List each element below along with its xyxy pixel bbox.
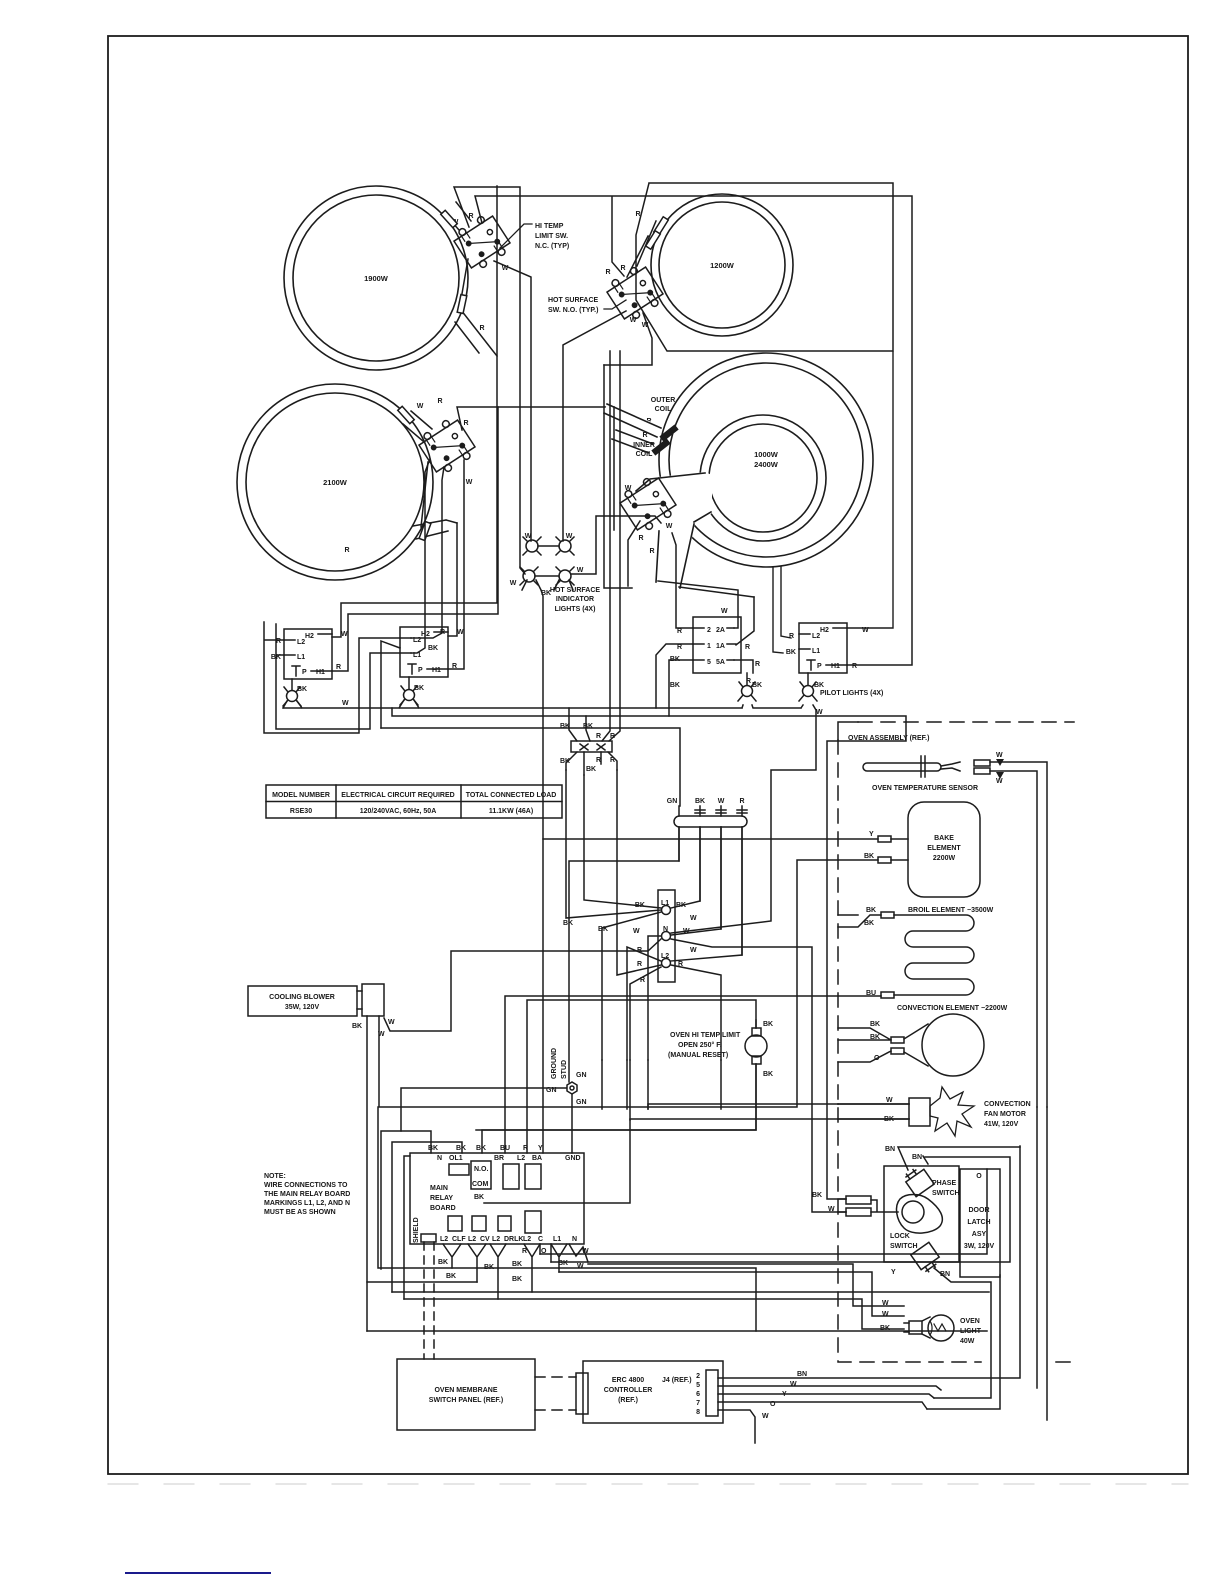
wire burner3 tab lower horn [413,462,457,539]
oven hi temp limit [476,1020,773,1130]
wire burner1 switch R to switch2 [475,196,912,665]
convection fan motor [838,1087,1031,1136]
svg-text:W: W [690,947,697,954]
svg-text:BN: BN [797,1371,807,1378]
svg-text:2400W: 2400W [754,460,779,469]
svg-text:1900W: 1900W [364,274,389,283]
wire board O drop [550,1244,552,1262]
svg-text:40W: 40W [960,1338,975,1345]
wire burner2 switch W2 down [604,313,652,365]
shield dashed wires [424,1242,434,1359]
wire board N zigzag W [569,1244,588,1262]
svg-text:R: R [479,325,484,332]
svg-text:R: R [437,398,442,405]
svg-text:BK: BK [560,758,570,765]
wire L1 to left riser [602,912,661,1060]
svg-text:BK: BK [670,682,680,689]
svg-text:R: R [649,548,654,555]
wire burner4 switch wires down [571,516,661,586]
svg-text:BK: BK [512,1261,522,1268]
svg-text:NOTE:: NOTE: [264,1173,286,1180]
svg-text:ASY: ASY [972,1231,987,1238]
dual surface element 1000W/2400W [634,353,873,590]
relay BR N.O./COM [471,1161,491,1189]
svg-text:W: W [882,1311,889,1318]
wire power W to N [671,827,721,935]
door latch assembly [812,1146,1000,1278]
note text block [264,1173,350,1216]
svg-text:INDICATOR: INDICATOR [556,596,594,603]
wire bus2 y716 to door latch W [392,708,906,1199]
svg-text:GROUND: GROUND [551,1048,558,1079]
wire power BK to L1 [671,827,700,908]
wire riser A to board N pin [381,1131,431,1269]
svg-text:CV: CV [480,1236,490,1243]
wire bake Y long run [543,838,878,840]
svg-text:BK: BK [586,766,596,773]
wire hi temp limit bottom to board BK [482,1064,756,1153]
svg-text:O: O [976,1173,982,1180]
svg-text:DRLK: DRLK [504,1236,523,1243]
bottom blue rule [108,1484,1188,1573]
svg-text:L2: L2 [523,1236,531,1243]
svg-text:BK: BK [563,920,573,927]
svg-text:W: W [996,778,1003,785]
svg-text:11.1KW (46A): 11.1KW (46A) [489,808,533,815]
bake element [864,802,980,897]
relay L2 [503,1164,519,1189]
svg-text:5: 5 [707,659,711,666]
wire box3 pin1 to bus [656,644,693,708]
svg-text:MAIN: MAIN [430,1185,448,1192]
switch label texts [344,211,675,555]
wire L2 left fans [617,770,661,1060]
svg-text:L1: L1 [553,1236,561,1243]
model number table [266,785,562,818]
S4 terminal labels [625,485,673,555]
pilot light 4 [799,682,883,701]
svg-text:PHASE: PHASE [932,1180,956,1187]
wire left risers to board underside [378,1107,756,1331]
svg-text:L1: L1 [297,654,305,661]
svg-text:BK: BK [866,907,876,914]
svg-text:ERC 4800: ERC 4800 [612,1377,644,1384]
svg-text:LIGHTS (4X): LIGHTS (4X) [555,606,596,613]
svg-text:BK: BK [352,1023,362,1030]
wire burner3 tab upper horn [403,411,432,442]
svg-text:H1: H1 [432,667,441,674]
svg-text:H2: H2 [305,633,314,640]
svg-text:R: R [463,420,468,427]
wire power R to L2 [671,827,742,961]
wire terminal block bottom wires [566,752,617,775]
wire W bus y708 with lamp legs [283,700,816,933]
svg-text:L1: L1 [812,648,820,655]
svg-text:RELAY: RELAY [430,1195,453,1202]
svg-text:W: W [417,403,424,410]
wire board L2 CV zigzag [468,1244,486,1282]
surface element 1200W (right rear) [651,194,793,336]
svg-text:W: W [886,1097,893,1104]
svg-text:BR: BR [494,1155,504,1162]
wire burner3 switch wires down to box2 [411,459,444,653]
svg-text:35W, 120V: 35W, 120V [285,1004,320,1011]
S2 terminal labels [605,211,648,329]
svg-text:W: W [577,567,584,574]
svg-text:2A: 2A [716,627,725,634]
svg-text:BN: BN [912,1154,922,1161]
svg-text:GN: GN [576,1099,587,1106]
wire board C R drop [539,1244,541,1254]
svg-text:R: R [789,633,794,640]
surface unit terminal block [560,723,615,773]
svg-text:BK: BK [583,723,593,730]
svg-text:BK: BK [763,1071,773,1078]
svg-text:HOT SURFACE: HOT SURFACE [550,587,601,594]
svg-text:W: W [862,627,869,634]
wire bus3 y728 [381,728,680,806]
svg-text:R: R [605,269,610,276]
svg-text:ELEMENT: ELEMENT [927,845,961,852]
oven light [880,1300,982,1345]
svg-text:W: W [630,317,637,324]
svg-text:P: P [817,663,822,670]
wire terminal block top feeds [569,351,620,741]
hi temp limit sw label [500,223,569,250]
wire door latch O bottom [927,1275,1000,1409]
svg-text:W: W [510,580,517,587]
svg-text:W: W [341,631,348,638]
wire sensor verticals down right side [1037,1107,1047,1420]
svg-text:L2: L2 [297,639,305,646]
svg-text:CONTROLLER: CONTROLLER [604,1387,653,1394]
svg-text:L1: L1 [661,900,669,907]
svg-text:H1: H1 [316,669,325,676]
wire labels above board [428,1145,543,1152]
power cord connector [667,798,747,955]
wire box1 H1 riser [332,407,498,671]
svg-text:BK: BK [864,853,874,860]
svg-text:SWITCH: SWITCH [890,1243,918,1250]
svg-text:1200W: 1200W [710,261,735,270]
wire board L1 zigzag W [551,1244,567,1272]
svg-text:L2: L2 [440,1236,448,1243]
svg-text:BK: BK [438,1259,448,1266]
lower relay 4 [525,1211,541,1233]
svg-text:R: R [596,733,601,740]
wire board L2 C zigzag [524,1244,540,1292]
wire fan motor BK feed [630,1118,838,1120]
svg-text:N: N [663,926,668,933]
S1 terminal labels [452,213,509,332]
svg-text:W: W [388,1019,395,1026]
svg-text:BK: BK [512,1276,522,1283]
svg-text:STUD: STUD [561,1060,568,1079]
svg-text:R: R [852,663,857,670]
svg-text:Y: Y [869,831,874,838]
svg-text:GND: GND [565,1155,581,1162]
svg-text:N.C. (TYP): N.C. (TYP) [535,243,569,250]
wire bus 1299 oven light BK [404,1299,904,1329]
svg-text:W: W [633,928,640,935]
wire fan motor W feed [648,1104,838,1109]
pilot light 3 [738,682,762,701]
svg-text:COOLING BLOWER: COOLING BLOWER [269,994,335,1001]
svg-text:OVEN MEMBRANE: OVEN MEMBRANE [434,1387,497,1394]
wire bus 1262 O to phase switch [551,1157,1010,1262]
svg-text:MARKINGS L1, L2, AND N: MARKINGS L1, L2, AND N [264,1200,350,1207]
wire box4 feeds from element [773,567,791,653]
wire burner1 tab lower horn [455,259,497,356]
wire box3 1A to burner4 [736,597,754,645]
dual element switch box 3 [670,608,760,689]
svg-text:W: W [457,629,464,636]
svg-text:OVEN HI TEMP LIMIT: OVEN HI TEMP LIMIT [670,1032,741,1039]
svg-text:BOARD: BOARD [430,1205,456,1212]
infinite switch box 4 [786,623,869,673]
svg-text:BN: BN [885,1146,895,1153]
wire burner4 switch R down to box3 pin2 [672,533,693,628]
burner4 coil labels [633,397,675,458]
svg-text:HOT SURFACE: HOT SURFACE [548,297,599,304]
wire hi temp limit top to board R [527,1000,756,1153]
switch burner4 [617,473,680,536]
svg-text:SHIELD: SHIELD [413,1217,420,1243]
svg-text:2: 2 [707,627,711,634]
svg-text:H1: H1 [831,663,840,670]
svg-text:R: R [739,798,744,805]
svg-text:120/240VAC, 60Hz, 50A: 120/240VAC, 60Hz, 50A [360,808,437,815]
svg-text:HI TEMP: HI TEMP [535,223,564,230]
svg-text:SWITCH PANEL (REF.): SWITCH PANEL (REF.) [429,1397,503,1404]
svg-text:OVEN: OVEN [960,1318,980,1325]
svg-text:BK: BK [446,1273,456,1280]
wire riser C to board left [404,1156,410,1299]
svg-text:COIL: COIL [655,406,672,413]
wire burner4 zone outline left [604,365,632,588]
svg-text:41W, 120V: 41W, 120V [984,1121,1019,1128]
svg-text:LOCK: LOCK [890,1233,910,1240]
svg-text:BK: BK [786,649,796,656]
svg-text:5: 5 [696,1382,700,1389]
svg-text:SWITCH: SWITCH [932,1190,960,1197]
svg-text:BK: BK [870,1021,880,1028]
hot surface sw label [548,297,626,314]
wire COM relay output to fan riser [484,1120,630,1203]
svg-text:R: R [344,547,349,554]
svg-text:BK: BK [428,645,438,652]
wire board L2 CLF zigzag to bus [443,1244,461,1268]
svg-text:BK: BK [695,798,705,805]
oven assembly dashed border [838,722,858,740]
latch connector blocks [846,1196,871,1204]
svg-text:OVEN TEMPERATURE SENSOR: OVEN TEMPERATURE SENSOR [872,785,978,792]
svg-text:W: W [718,798,725,805]
wire block to L1 fan [566,770,661,918]
svg-text:(MANUAL RESET): (MANUAL RESET) [668,1052,728,1059]
wire riser B to board BK pin [392,1142,462,1292]
svg-text:BROIL ELEMENT −3500W: BROIL ELEMENT −3500W [908,907,994,914]
svg-text:OPEN 250° F.: OPEN 250° F. [678,1041,722,1049]
svg-text:Y: Y [782,1391,787,1398]
svg-text:3W, 120V: 3W, 120V [964,1243,995,1250]
svg-text:1: 1 [707,643,711,650]
wire W bus labels [342,700,823,716]
wire box2 H1 riser to switch3 [448,460,464,669]
blue underline [126,1572,270,1574]
lower relay 1 [448,1216,462,1231]
svg-text:R: R [620,265,625,272]
wire broil BK leads left [838,915,881,927]
svg-text:ELECTRICAL CIRCUIT REQUIRED: ELECTRICAL CIRCUIT REQUIRED [341,792,454,799]
wire burner2 zone outline [636,183,893,351]
svg-text:J4 (REF.): J4 (REF.) [662,1377,692,1384]
convection element [870,1005,1008,1076]
main relay board [410,1153,584,1244]
oven membrane switch panel [397,1359,535,1430]
relay OL1 [449,1164,469,1175]
wire box4 H2 to burner2 zone [847,352,893,628]
wire ERC labels [762,1371,807,1420]
svg-text:H2: H2 [820,627,829,634]
hot surface switch burner2 [604,262,667,325]
wire blower W2 long bus to bake BK [379,860,878,1107]
infinite switch box 2 [400,627,464,677]
svg-text:BK: BK [476,1145,486,1152]
svg-text:N: N [572,1236,577,1243]
svg-text:WIRE CONNECTIONS TO: WIRE CONNECTIONS TO [264,1182,348,1189]
svg-text:BK: BK [474,1194,484,1201]
lower relay 2 [472,1216,486,1231]
svg-text:L2: L2 [468,1236,476,1243]
wire lock switch BN to ERC [934,1268,991,1398]
switch burner3 [416,415,479,478]
wire burner2 switch W down to lamp2 [563,311,626,541]
svg-text:BK: BK [864,920,874,927]
faint dashed line under frame [108,1483,1188,1485]
wire labels below board [438,1248,589,1283]
cooling blower [248,984,395,1038]
wire bus 1254 R to door latch box [540,1169,987,1254]
svg-text:6: 6 [696,1391,700,1398]
svg-text:L2: L2 [517,1155,525,1162]
svg-text:BK: BK [763,1021,773,1028]
pilot light 1 [283,686,307,706]
wire box1 L2 loop under to box2 L2 [264,622,400,733]
svg-text:2100W: 2100W [323,478,348,487]
svg-text:5A: 5A [716,659,725,666]
svg-text:(REF.): (REF.) [618,1397,638,1404]
wire burner4 corridor to box3 1A riser [679,587,754,597]
S3 terminal labels [344,398,472,554]
hi temp limit switch burner1 [451,211,514,274]
svg-text:R: R [677,628,682,635]
dashed ribbon between panel and ERC [535,1377,576,1410]
wire risers to long bus1109 [602,1060,721,1120]
svg-text:1000W: 1000W [754,450,779,459]
svg-text:C: C [538,1236,543,1243]
wire bus 1272 W to oven light [559,1272,904,1316]
wire power GN down-left to stud [569,827,679,1082]
wire N left W riser [648,936,661,1060]
svg-text:R: R [677,644,682,651]
wire burner3 switch R loop right [457,407,614,430]
wire stud left and to board [401,1088,572,1153]
svg-text:R: R [755,661,760,668]
surface element 2100W (left rear) [237,384,433,580]
wire box3 to pilot lamp3 [746,673,748,685]
svg-text:W: W [577,1263,584,1270]
phase switch [902,1164,934,1196]
shield terminal [421,1234,436,1242]
svg-text:2: 2 [696,1373,700,1380]
svg-text:OUTER: OUTER [651,397,676,404]
svg-text:MODEL NUMBER: MODEL NUMBER [272,792,330,799]
svg-text:W: W [625,485,632,492]
wire burner4 corridor to box3 2A [658,581,738,628]
svg-text:W: W [996,752,1003,759]
wire burner1 switch W loop top [454,187,525,574]
svg-text:W: W [762,1413,769,1420]
svg-text:W: W [816,709,823,716]
wire box2 third pin down to bus [381,641,400,728]
ground stud [546,1048,587,1106]
wire box2 P to pilot lamp2 [408,677,410,689]
broil element [864,907,994,998]
svg-text:W: W [690,915,697,922]
relay BA [525,1164,541,1189]
svg-text:P: P [302,669,307,676]
wire convection BU to board [505,996,881,1153]
wire box1 L1 loop under to box2 L1 [276,624,400,729]
svg-text:MUST BE AS SHOWN: MUST BE AS SHOWN [264,1209,336,1216]
wire ERC J4 pin wires [718,1146,1020,1443]
svg-text:W: W [666,523,673,530]
wire box3 5A pilot [734,660,753,673]
surface element 1900W (left front) [284,186,468,370]
svg-text:CLF: CLF [452,1236,466,1243]
svg-text:OL1: OL1 [449,1155,463,1162]
svg-text:BK: BK [456,1145,466,1152]
svg-text:GN: GN [576,1072,587,1079]
wire box3 pin5 to bus [669,660,693,716]
svg-text:R: R [637,961,642,968]
svg-text:7: 7 [696,1400,700,1407]
wire burner2 tab upper [627,221,656,277]
svg-text:BAKE: BAKE [934,835,954,842]
svg-text:L2: L2 [492,1236,500,1243]
wire bottom bus 1331 [367,1330,987,1332]
wire burner1 switch W bottom to lamp1 [494,261,531,541]
svg-text:R: R [745,644,750,651]
wire box2 H2 to burner3 tab [448,523,457,636]
hot surface indicator lights (4X) [510,533,601,613]
svg-text:N.O.: N.O. [474,1166,488,1173]
svg-text:PILOT LIGHTS (4X): PILOT LIGHTS (4X) [820,690,883,697]
svg-text:N: N [437,1155,442,1162]
latch cam [897,1195,943,1234]
wire board L2 DRLK zigzag [490,1244,506,1299]
pilot light 2 [400,685,424,705]
svg-text:W: W [466,479,473,486]
svg-text:W: W [790,1381,797,1388]
wire blower BK down to bottom bus [366,1016,368,1331]
svg-text:SW. N.O. (TYP.): SW. N.O. (TYP.) [548,307,598,314]
svg-text:L2: L2 [661,953,669,960]
svg-text:L2: L2 [812,633,820,640]
svg-text:O: O [770,1401,776,1408]
svg-text:COM: COM [472,1181,489,1188]
